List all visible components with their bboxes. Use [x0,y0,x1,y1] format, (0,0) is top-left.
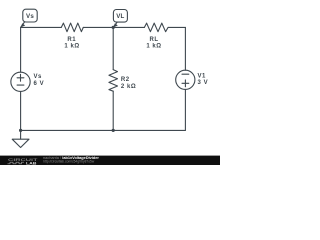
ground stem [20,130,22,139]
svg-text:2 kΩ: 2 kΩ [121,84,136,90]
voltage source V1 circle [176,70,195,89]
svg-text:RL: RL [149,37,158,43]
svg-text:1 kΩ: 1 kΩ [64,43,79,49]
svg-text:V1: V1 [198,73,207,79]
svg-text:Vs: Vs [26,13,34,20]
junction node R2-bottom [112,129,115,132]
wire middle vertical bottom (R2 to rail) [112,91,114,130]
svg-text:1 kΩ: 1 kΩ [146,43,161,49]
node flag Vs pointer [21,22,25,28]
wire right vertical top (to V1) [184,27,186,70]
wire right vertical bottom (V1 to rail) [184,89,186,130]
junction node VL [112,26,115,29]
voltage source Vs circle [11,72,30,91]
Vs minus symbol [17,84,24,86]
V1 plus symbol [182,80,189,87]
footer bar [0,156,220,165]
resistor R1 [61,23,83,32]
ground symbol [12,139,29,147]
svg-text:3 V: 3 V [198,80,209,86]
V1 minus symbol [182,73,189,75]
node flag Vs box [23,9,37,22]
svg-text:LAB: LAB [26,160,37,165]
wire middle vertical top (VL to R2) [112,27,114,69]
junction node ground-left [19,129,22,132]
wire left vertical top (Vs node to Vs) [20,27,22,72]
node flag VL pointer [113,22,117,28]
Vs plus symbol [17,74,24,81]
wire bottom rail [21,129,186,131]
resistor RL [144,23,168,32]
svg-text:R1: R1 [67,37,76,43]
resistor R2 [109,70,118,92]
wire left vertical bottom (Vs to rail) [20,92,22,131]
svg-text:http://circuitlab.com/c54gXby8: http://circuitlab.com/c54gXby87o5w [43,160,95,164]
svg-text:Vs: Vs [34,74,43,80]
footer logo waveform [8,162,25,164]
wire R1 to node VL [83,26,113,28]
wire RL to top-right corner [168,26,185,28]
svg-text:VL: VL [116,13,124,20]
svg-text:6 V: 6 V [34,81,45,87]
wire top-left horizontal (Vs node to R1) [21,26,62,28]
wire node VL to RL [113,26,144,28]
svg-text:R2: R2 [121,77,130,83]
node flag VL box [113,10,127,23]
